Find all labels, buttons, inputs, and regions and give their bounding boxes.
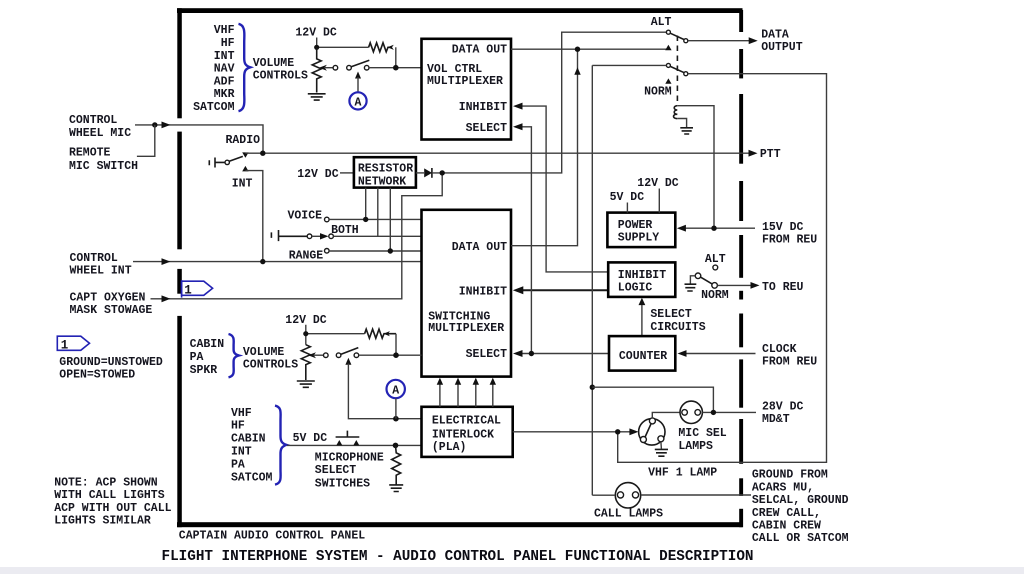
wire resistor network outputs (3 leads down)	[366, 188, 391, 251]
wire to mic sel lamps	[592, 387, 713, 412]
switch S7 data output NORM (lower)	[666, 63, 670, 67]
svg-text:VOLUME: VOLUME	[253, 57, 295, 70]
enclosure CAPTAIN AUDIO CONTROL PANEL : top border	[177, 8, 743, 13]
mechanical link dashed (S6-S7-K1)	[676, 36, 678, 105]
svg-text:CALL LAMPS: CALL LAMPS	[594, 508, 663, 521]
svg-text:SELCAL, GROUND: SELCAL, GROUND	[752, 494, 849, 507]
wire DS1 to DS2	[652, 412, 680, 418]
node range junction	[388, 248, 393, 253]
enclosure bottom border	[177, 522, 743, 527]
svg-text:NORM: NORM	[701, 289, 729, 302]
svg-text:NETWORK: NETWORK	[358, 175, 406, 188]
svg-text:12V DC: 12V DC	[297, 168, 339, 181]
circled A (bottom)	[387, 380, 405, 398]
enclosure right border (dashed)	[739, 10, 743, 527]
node junction 12V/R3	[303, 331, 308, 336]
wire radio contact to PTT node	[245, 152, 262, 154]
arrowhead select vol ctrl	[513, 123, 523, 130]
svg-text:INHIBIT: INHIBIT	[459, 285, 507, 298]
wire interlock to switching mux (4 leads)	[440, 384, 493, 407]
ground below relay coil	[680, 128, 693, 134]
svg-text:SELECT: SELECT	[466, 122, 508, 135]
svg-text:CALL OR SATCOM: CALL OR SATCOM	[752, 532, 849, 545]
arrowhead inhibit switching	[513, 286, 524, 294]
switch S3 voice/both pole and blade arrow	[307, 234, 312, 239]
contact indicator NORM (up triangle)	[665, 78, 671, 83]
wire int contact down to control wheel int line	[245, 171, 262, 262]
flag 1 (legend, left margin)	[57, 336, 89, 350]
arrowhead into counter	[678, 350, 687, 357]
node link junction	[393, 416, 399, 422]
node mic/remote junction	[152, 122, 157, 127]
arrowhead into power supply	[677, 225, 686, 232]
svg-text:CREW CALL,: CREW CALL,	[752, 507, 821, 520]
bottom page edge strip	[0, 567, 1024, 574]
wire TO REU	[717, 284, 752, 286]
pushbutton S5 microphone select	[336, 431, 360, 437]
switch S2 radio/int pole	[225, 160, 229, 164]
svg-text:SPKR: SPKR	[190, 364, 218, 377]
svg-text:CONTROLS: CONTROLS	[243, 358, 298, 371]
block U2 SWITCHING MULTIPLEXER	[422, 210, 512, 377]
contact int (up triangle)	[242, 166, 248, 172]
svg-text:MIC SEL: MIC SEL	[678, 427, 726, 440]
wire 12V DC feed to pot R3	[306, 325, 365, 345]
relay K1 coil	[674, 106, 678, 119]
svg-text:FROM REU: FROM REU	[762, 356, 817, 369]
svg-text:CIRCUITS: CIRCUITS	[650, 321, 705, 334]
wire diode to ALT feed riser	[432, 32, 666, 173]
svg-text:CONTROL: CONTROL	[69, 114, 117, 127]
wire 15V DC from REU	[680, 227, 755, 229]
arrowhead DATA OUTPUT	[749, 37, 758, 44]
svg-text:15V DC: 15V DC	[762, 221, 804, 234]
enclosure left border (solid with gaps at wire entries)	[177, 8, 182, 527]
wire S8 pole to ground	[690, 276, 695, 284]
block ELECTRICAL INTERLOCK (PLA)	[422, 407, 513, 457]
svg-text:DATA: DATA	[761, 29, 789, 42]
wire interlock output to VHF 1 lamp	[513, 431, 635, 433]
svg-text:VHF: VHF	[214, 24, 235, 37]
brace for top volume controls	[239, 24, 251, 111]
wire range row	[329, 250, 421, 252]
svg-text:LIGHTS SIMILAR: LIGHTS SIMILAR	[54, 514, 151, 527]
node B junction	[393, 65, 399, 71]
svg-text:WITH CALL LIGHTS: WITH CALL LIGHTS	[54, 489, 165, 502]
svg-text:HF: HF	[231, 420, 245, 433]
svg-text:OUTPUT: OUTPUT	[761, 41, 803, 54]
wiper arrow pot R2	[325, 67, 335, 69]
svg-text:MASK STOWAGE: MASK STOWAGE	[70, 304, 153, 317]
ground below R5	[389, 485, 403, 492]
diode CR1	[416, 172, 424, 174]
svg-text:CAPTAIN AUDIO CONTROL PANEL: CAPTAIN AUDIO CONTROL PANEL	[179, 530, 365, 543]
arrowhead into VHF 1 lamp	[629, 428, 638, 435]
arrowhead up on data riser	[574, 67, 580, 75]
svg-text:WHEEL INT: WHEEL INT	[70, 264, 132, 277]
ground at S8	[685, 284, 697, 291]
svg-text:SATCOM: SATCOM	[231, 472, 273, 485]
op block U1 VOL CTRL MULTIPLEXER	[422, 39, 512, 140]
node junction 12V/R1	[314, 45, 319, 50]
svg-text:SWITCHES: SWITCHES	[315, 477, 370, 490]
wire 12V DC to resistor network	[340, 172, 354, 174]
svg-text:INT: INT	[232, 178, 253, 191]
svg-text:PA: PA	[231, 459, 245, 472]
svg-text:VOICE: VOICE	[288, 210, 323, 223]
svg-text:CONTROLS: CONTROLS	[253, 70, 308, 83]
arrowhead into panel (mic)	[162, 122, 171, 129]
node PTT junction	[260, 151, 265, 156]
svg-text:VHF 1 LAMP: VHF 1 LAMP	[648, 466, 717, 479]
svg-text:ELECTRICAL: ELECTRICAL	[432, 415, 501, 428]
brace for mic select switches	[275, 406, 287, 485]
arrowhead into panel (cwi)	[162, 258, 171, 265]
svg-text:LOGIC: LOGIC	[618, 282, 653, 295]
wiper arrow on R4	[383, 331, 390, 336]
svg-text:MD&T: MD&T	[762, 413, 790, 426]
wire data output	[688, 40, 755, 42]
svg-text:INHIBIT: INHIBIT	[618, 269, 666, 282]
svg-text:VOLUME: VOLUME	[243, 346, 285, 359]
wire NORM pole riser	[591, 65, 593, 495]
wire mechanical link to interlock	[348, 364, 421, 419]
wire coil to ground	[677, 119, 686, 128]
svg-text:TO REU: TO REU	[762, 281, 804, 294]
svg-text:GROUND=UNSTOWED: GROUND=UNSTOWED	[59, 356, 163, 369]
wire coil to 15V node	[677, 106, 714, 229]
svg-text:MULTIPLEXER: MULTIPLEXER	[427, 75, 503, 88]
wire remote mic switch to junction	[137, 125, 155, 156]
circled A (top)	[349, 92, 366, 109]
resistor R4 trim (bottom feedback zigzag)	[365, 329, 396, 338]
svg-text:LAMPS: LAMPS	[678, 440, 713, 453]
node 28V junction	[711, 410, 716, 415]
arrowhead TO REU	[751, 282, 760, 289]
svg-text:REMOTE: REMOTE	[69, 147, 111, 160]
svg-text:FLIGHT INTERPHONE SYSTEM - AUD: FLIGHT INTERPHONE SYSTEM - AUDIO CONTROL…	[162, 549, 754, 565]
mechanical link arrow A (top)	[355, 72, 361, 79]
wire data out join (switching mux up to vol ctrl data node)	[511, 49, 578, 246]
wire select circuits arrow (counter to inhibit logic)	[641, 303, 643, 336]
arrowheads interlock leads	[437, 378, 496, 385]
svg-text:NORM: NORM	[644, 86, 672, 99]
resistor R1 trim (top feedback zigzag)	[369, 43, 392, 52]
node data out junction	[575, 47, 580, 52]
svg-text:1: 1	[184, 284, 192, 298]
arrowhead PTT	[749, 150, 758, 157]
arrowhead select switching	[513, 350, 523, 357]
svg-text:NOTE: ACP SHOWN: NOTE: ACP SHOWN	[54, 476, 158, 489]
switch S6 data output ALT (upper)	[666, 30, 670, 34]
wiper arrow on R1	[387, 45, 394, 50]
svg-text:MULTIPLEXER: MULTIPLEXER	[428, 322, 504, 335]
wire inhibit link (inhibit logic to both multiplexers)	[516, 106, 609, 272]
svg-text:WHEEL MIC: WHEEL MIC	[69, 127, 131, 140]
node select junction	[529, 351, 534, 356]
svg-text:MIC SWITCH: MIC SWITCH	[69, 160, 138, 173]
svg-text:COUNTER: COUNTER	[619, 350, 667, 363]
node interlock/loop junction	[615, 429, 620, 434]
svg-text:SATCOM: SATCOM	[193, 101, 235, 114]
svg-text:RESISTOR: RESISTOR	[358, 163, 413, 176]
svg-text:ADF: ADF	[214, 75, 235, 88]
wire NORM throw loop to lamps	[618, 74, 827, 463]
wire voice row	[329, 218, 421, 220]
arrowhead into panel (oxygen)	[162, 295, 171, 302]
svg-text:PA: PA	[190, 351, 204, 364]
wire DS3 to selcal line	[641, 494, 751, 496]
svg-text:CLOCK: CLOCK	[762, 343, 797, 356]
svg-text:INT: INT	[214, 50, 235, 63]
contact radio (down triangle)	[242, 152, 248, 157]
wiper arrow pot R3	[314, 354, 324, 356]
svg-text:GROUND FROM: GROUND FROM	[752, 469, 828, 482]
wire NORM pole feed	[592, 64, 666, 66]
resistor R5 pulldown	[392, 445, 401, 484]
block COUNTER	[609, 336, 675, 371]
svg-text:BOTH: BOTH	[331, 224, 359, 237]
lamp DS2 MIC SEL LAMPS	[680, 401, 702, 423]
svg-text:DATA OUT: DATA OUT	[452, 44, 507, 57]
node mic select junction	[393, 443, 399, 449]
node 15V junction	[711, 226, 716, 231]
svg-text:PTT: PTT	[760, 148, 781, 161]
switch S1 volume on/off (top)	[333, 65, 338, 70]
node cwi junction	[260, 259, 265, 264]
svg-text:HF: HF	[221, 37, 235, 50]
svg-text:ACARS MU,: ACARS MU,	[752, 481, 814, 494]
node C junction	[393, 352, 399, 358]
svg-text:RADIO: RADIO	[226, 134, 261, 147]
svg-text:INHIBIT: INHIBIT	[459, 101, 507, 114]
wire capt oxygen entry to diode node	[151, 173, 443, 299]
ground below pot R2	[308, 94, 326, 100]
svg-text:5V DC: 5V DC	[293, 432, 328, 445]
microphone jack symbol (voice/both)	[271, 230, 307, 241]
svg-text:VHF: VHF	[231, 407, 252, 420]
lamp DS3 CALL LAMPS	[615, 483, 640, 508]
svg-text:CABIN CREW: CABIN CREW	[752, 520, 821, 533]
lamp DS1 VHF 1 LAMP	[639, 419, 665, 445]
switch S8 pole and blade	[695, 273, 701, 279]
ground below DS1	[660, 442, 663, 449]
svg-text:12V DC: 12V DC	[637, 177, 679, 190]
wire R1 to node B	[395, 47, 397, 67]
svg-text:OPEN=STOWED: OPEN=STOWED	[59, 369, 135, 382]
wire select link (counter to both multiplexers)	[516, 127, 609, 354]
svg-text:SUPPLY: SUPPLY	[618, 231, 660, 244]
wire CLOCK from REU	[682, 353, 756, 355]
svg-text:(PLA): (PLA)	[432, 441, 467, 454]
block POWER SUPPLY	[607, 213, 675, 248]
wire PTT line	[263, 152, 755, 154]
wire S4 to switching multiplexer	[359, 354, 422, 356]
svg-text:POWER: POWER	[618, 219, 653, 232]
svg-text:CABIN: CABIN	[231, 433, 266, 446]
brace for cabin volume controls	[229, 334, 239, 377]
svg-text:1: 1	[61, 338, 69, 352]
svg-text:MICROPHONE: MICROPHONE	[315, 451, 384, 464]
svg-text:12V DC: 12V DC	[295, 26, 337, 39]
node diode junction	[440, 170, 445, 175]
mechanical link arrow A (bottom)	[345, 358, 351, 365]
wire inhibit to switching mux	[521, 289, 608, 291]
switch S8 to-reu: ALT contact	[713, 265, 718, 270]
svg-text:INTERLOCK: INTERLOCK	[432, 428, 494, 441]
switch S4 volume on/off (bottom)	[324, 353, 329, 358]
node voice junction	[363, 217, 368, 222]
arrowhead up at ALT switch feed	[665, 45, 671, 51]
wire both row	[333, 235, 421, 237]
svg-text:SELECT: SELECT	[315, 464, 357, 477]
svg-text:CONTROL: CONTROL	[70, 252, 118, 265]
block RESISTOR NETWORK	[354, 157, 416, 187]
svg-text:INT: INT	[231, 446, 252, 459]
svg-text:RANGE: RANGE	[289, 249, 324, 262]
svg-text:CABIN: CABIN	[190, 338, 225, 351]
svg-text:ALT: ALT	[651, 16, 672, 29]
wire circled A to link line	[395, 398, 397, 418]
svg-text:DATA OUT: DATA OUT	[452, 241, 507, 254]
svg-text:A: A	[392, 384, 399, 397]
svg-text:SELECT: SELECT	[466, 348, 508, 361]
wire control wheel int entry	[133, 261, 422, 263]
wire power supply output leads	[627, 189, 659, 213]
arrowhead inhibit vol ctrl	[513, 103, 523, 110]
arrowhead select circuits	[639, 298, 646, 305]
ground below pot R3	[297, 381, 315, 387]
flag 1 (on oxygen line)	[182, 281, 213, 295]
svg-text:A: A	[355, 96, 362, 109]
wire control wheel mic entry	[135, 125, 263, 153]
svg-text:5V DC: 5V DC	[610, 191, 645, 204]
microphone jack symbol (radio/int)	[209, 158, 225, 168]
svg-text:FROM REU: FROM REU	[762, 234, 817, 247]
svg-text:28V DC: 28V DC	[762, 401, 804, 414]
svg-text:SELECT: SELECT	[650, 308, 692, 321]
wire 5V DC mic select row	[287, 444, 422, 446]
wire DS2 to 28V node	[702, 411, 756, 413]
wire vol ctrl mux DATA OUT to ALT switch	[511, 48, 668, 50]
potentiometer R2 (top volume pot)	[312, 47, 321, 92]
svg-text:MKR: MKR	[214, 88, 235, 101]
svg-text:ACP WITH OUT CALL: ACP WITH OUT CALL	[54, 502, 171, 515]
potentiometer R3 (bottom volume pot)	[301, 345, 310, 380]
node riser/lamp junction	[590, 385, 595, 390]
wire S1 to VOL CTRL MULTIPLEXER	[369, 67, 422, 69]
label list VHF HF INT NAV ADF MKR SATCOM (top volume controls)	[193, 24, 235, 114]
wire riser to DS3	[592, 494, 615, 496]
wire R4 to node C	[395, 334, 397, 356]
svg-text:NAV: NAV	[214, 63, 235, 76]
block INHIBIT LOGIC	[608, 262, 675, 297]
svg-text:ALT: ALT	[705, 253, 726, 266]
wire 12V DC feed to pot R1	[317, 38, 369, 59]
svg-text:CAPT OXYGEN: CAPT OXYGEN	[70, 292, 146, 305]
